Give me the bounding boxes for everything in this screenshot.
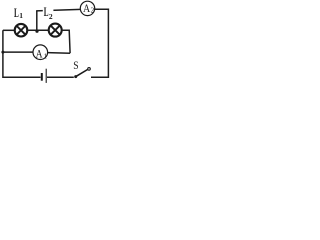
svg-text:A: A [36, 49, 44, 61]
wire: left vertical + bottom-left horizontal [3, 30, 41, 77]
switch S blade tip ring [88, 68, 91, 71]
wire: A1 row left segment [3, 51, 33, 53]
wire: A1 row right segment [48, 52, 71, 55]
wire: top horizontal to ammeter A2 [36, 9, 80, 11]
svg-text:A: A [83, 1, 90, 15]
ammeter A2 [80, 1, 94, 16]
lamp L1 [15, 24, 28, 37]
wire: top right segment + right vertical + bottom right segment [91, 9, 108, 77]
svg-text:S: S [73, 58, 78, 72]
wire: bottom segment battery to switch [47, 76, 74, 78]
svg-text:2: 2 [49, 12, 53, 21]
ammeter A1 [33, 45, 48, 61]
switch S blade [76, 70, 88, 77]
svg-text:2: 2 [91, 7, 95, 15]
switch S left contact dot [74, 75, 77, 78]
wire: lamps row right segment + right-mid vertical down [62, 30, 70, 53]
label L2 (on white patch over wire) [43, 5, 54, 21]
wire: lamps row, left segment to L1 [3, 29, 15, 31]
battery positive plate (long thin) [45, 69, 47, 83]
wire: lamps row, between L1 and L2 [27, 29, 49, 31]
battery negative plate (short thick) [41, 73, 43, 81]
lamp L2 [49, 24, 62, 37]
node junction on left wire [1, 51, 4, 54]
svg-text:1: 1 [19, 11, 23, 20]
wire: vertical branch from junction up to top row [36, 11, 38, 30]
svg-text:L: L [14, 6, 19, 20]
svg-text:L: L [44, 5, 49, 19]
node junction between lamps [35, 30, 38, 33]
svg-text:1: 1 [44, 52, 48, 60]
